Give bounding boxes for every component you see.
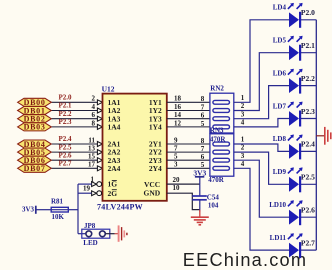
wire P2.7 port to U12 [51,167,97,169]
svg-text:7: 7 [201,103,205,111]
svg-text:7: 7 [174,145,178,153]
resistor R81 [51,197,68,221]
3V3 power bar left [35,206,37,214]
svg-text:1: 1 [241,94,245,102]
input arrow pin 13 [97,150,102,155]
svg-text:14: 14 [174,111,182,119]
svg-text:P2.5: P2.5 [301,173,315,182]
port DB05 [18,148,52,157]
svg-text:16: 16 [174,103,182,111]
wire U12 pin 16 to RN2 [167,110,210,112]
wire RN3 out1 to LD8 [234,144,289,151]
wire U12 pin 3 to RN3 [167,167,210,169]
svg-text:1: 1 [91,175,95,183]
cathode wire LD4 [300,19,316,21]
svg-text:18: 18 [174,95,182,103]
svg-text:3: 3 [174,161,178,169]
inversion bubble pin 19 [92,191,97,196]
svg-text:P2.2: P2.2 [301,74,315,83]
svg-text:6: 6 [201,153,205,161]
svg-text:P2.5: P2.5 [59,143,73,151]
svg-text:10: 10 [173,184,181,192]
cathode wire LD10 [300,216,316,218]
LED LD4 [273,3,315,28]
resistor network RN2 [210,84,234,133]
wire RN3 out2 to LD9 [234,152,289,184]
svg-text:2: 2 [92,95,96,103]
wire RN2 out3 to LD6 [234,86,289,119]
wire RN2 out4 to LD7 [234,119,289,127]
svg-text:3: 3 [241,110,245,118]
svg-text:P2.3: P2.3 [301,107,315,116]
LED cathode bus [315,20,317,250]
svg-text:13: 13 [88,145,96,153]
svg-text:7: 7 [201,145,205,153]
svg-text:LD4: LD4 [273,4,287,12]
svg-text:2G: 2G [108,189,118,198]
svg-text:74LV244PW: 74LV244PW [97,202,143,211]
port DB06 [18,156,52,165]
svg-text:104: 104 [208,202,219,210]
wire JP8 to ground [106,233,115,235]
3V3 power bar at C54 [193,169,206,185]
svg-text:4: 4 [241,119,245,127]
LED LD11 [270,233,315,258]
port DB07 [18,164,52,173]
svg-text:P2.7: P2.7 [59,160,73,168]
svg-text:P2.4: P2.4 [301,140,315,149]
wire P2.2 port to U12 [51,118,97,120]
svg-text:8: 8 [92,119,96,127]
svg-text:VCC: VCC [144,180,160,189]
LED LD8 [273,135,315,160]
wire 3V3 to R81 [36,209,51,211]
IC U12 body [103,94,167,201]
svg-text:8: 8 [201,137,205,145]
svg-text:4: 4 [92,103,96,111]
svg-text:P2.0: P2.0 [59,94,73,102]
port DB04 [18,140,52,149]
LED LD9 [273,167,315,192]
svg-text:3V3: 3V3 [193,169,206,178]
wire G pin 1 to junction [78,183,92,185]
svg-text:8: 8 [201,95,205,103]
junction vertical wire [77,184,79,234]
svg-text:2: 2 [241,102,245,110]
svg-text:2A4: 2A4 [108,164,121,173]
svg-text:10K: 10K [52,213,65,221]
svg-text:P2.2: P2.2 [59,110,73,118]
svg-text:P2.6: P2.6 [59,151,73,159]
svg-text:P2.3: P2.3 [59,118,73,126]
wire U12 pin 7 to RN3 [167,151,210,153]
cathode wire LD6 [300,85,316,87]
LED LD5 [273,36,315,61]
svg-text:12: 12 [174,119,182,127]
cathode wire LD11 [300,249,316,251]
LED LD10 [269,200,315,225]
svg-text:1Y4: 1Y4 [149,123,162,132]
wire R81 to junction [68,209,78,211]
svg-text:DB07: DB07 [24,164,46,173]
wire P2.6 port to U12 [51,159,97,161]
svg-text:1: 1 [241,136,245,144]
svg-text:LD6: LD6 [273,69,287,77]
input arrow pin 2 [97,100,102,105]
cathode wire LD5 [300,52,316,54]
svg-text:DB03: DB03 [24,123,46,132]
svg-text:3: 3 [241,152,245,160]
input arrow pin 8 [97,124,102,129]
wire U12 pin 18 to RN2 [167,101,210,103]
svg-text:19: 19 [83,184,91,192]
wire G pin 19 to junction [78,192,92,194]
wire RN2 out1 to LD4 [234,20,289,103]
svg-text:P2.7: P2.7 [301,238,315,247]
input arrow pin 4 [97,108,102,113]
svg-text:LED: LED [83,239,97,247]
svg-text:R81: R81 [51,197,64,205]
svg-text:2: 2 [241,144,245,152]
svg-text:JP8: JP8 [84,222,96,230]
wire U12 pin 5 to RN3 [167,159,210,161]
wire P2.5 port to U12 [51,151,97,153]
resistor network RN3 [210,134,234,176]
svg-text:LD11: LD11 [270,234,287,242]
svg-text:20: 20 [173,176,181,184]
port DB01 [18,106,52,115]
capacitor C54 [192,194,219,210]
port DB00 [18,98,52,107]
svg-text:2Y4: 2Y4 [149,164,162,173]
wire P2.0 port to U12 [51,101,97,103]
svg-text:EEChina.com: EEChina.com [183,250,307,270]
svg-text:P2.1: P2.1 [59,102,73,110]
port DB03 [18,123,52,132]
input arrow pin 15 [97,158,102,163]
svg-text:11: 11 [88,136,95,144]
svg-text:P2.1: P2.1 [301,41,315,50]
svg-text:470R: 470R [208,176,225,184]
ground at right edge (rotated earth) [316,127,331,145]
svg-text:1A4: 1A4 [108,123,121,132]
LED LD6 [273,69,315,94]
svg-text:4: 4 [241,160,245,168]
wire RN3 out4 to LD11 [234,168,289,250]
wire P2.1 port to U12 [51,110,97,112]
svg-text:9: 9 [174,136,178,144]
svg-text:P2.6: P2.6 [301,206,315,215]
svg-text:6: 6 [201,112,205,120]
wire P2.4 port to U12 [51,143,97,145]
input arrow pin 11 [97,142,102,147]
wire RN3 out3 to LD10 [234,160,289,217]
LED LD7 [273,102,315,127]
wire U12 pin 9 to RN3 [167,143,210,145]
svg-text:U12: U12 [102,85,115,94]
svg-text:C54: C54 [207,194,220,202]
wire GND pin 10 [167,193,200,209]
svg-text:GND: GND [144,189,161,198]
wire VCC pin 20 [167,183,200,185]
svg-text:LD9: LD9 [273,168,287,176]
svg-text:LD8: LD8 [273,135,287,143]
svg-text:LD7: LD7 [273,102,287,110]
svg-text:LD10: LD10 [269,201,286,209]
svg-text:6: 6 [92,111,96,119]
svg-text:3V3: 3V3 [22,206,35,214]
input arrow pin 6 [97,116,102,121]
ground below C54 (earth) [191,210,209,225]
svg-text:P2.0: P2.0 [301,8,315,17]
wire 3V3 to C54 [199,184,201,196]
input arrow pin 17 [97,166,102,171]
cathode wire LD8 [300,150,316,152]
port DB02 [18,115,52,124]
svg-text:RN2: RN2 [210,84,224,92]
ground right of JP8 (rotated earth) [119,225,127,241]
cathode wire LD7 [300,118,316,120]
cathode wire LD9 [300,183,316,185]
svg-text:P2.4: P2.4 [59,135,73,143]
wire U12 pin 12 to RN2 [167,126,210,128]
svg-text:15: 15 [88,153,96,161]
jumper JP8 [78,222,110,247]
wire RN2 out2 to LD5 [234,53,289,111]
wire P2.3 port to U12 [51,126,97,128]
wire C54 to ground [199,200,201,212]
svg-text:5: 5 [174,153,178,161]
wire U12 pin 14 to RN2 [167,118,210,120]
inversion bubble pin 1 [92,182,97,187]
svg-text:LD5: LD5 [273,37,287,45]
svg-text:17: 17 [88,161,96,169]
svg-text:5: 5 [201,120,205,128]
